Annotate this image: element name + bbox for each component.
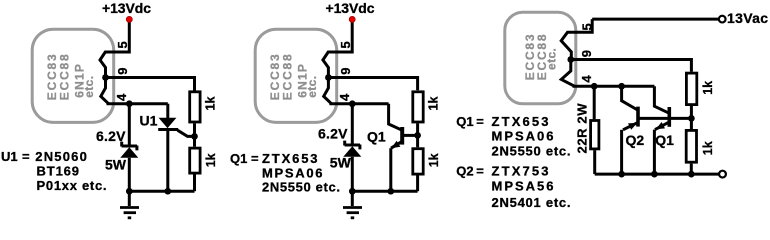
svg-text:9: 9 (579, 50, 594, 57)
svg-text:6.2V: 6.2V (96, 128, 126, 144)
svg-text:13Vac: 13Vac (727, 10, 768, 26)
svg-text:Q2: Q2 (626, 132, 645, 148)
svg-text:9: 9 (338, 68, 353, 75)
svg-text:2N5550 etc.: 2N5550 etc. (262, 179, 340, 194)
svg-text:2N5060: 2N5060 (35, 149, 87, 164)
svg-text:Q1: Q1 (655, 132, 674, 148)
svg-text:Q1: Q1 (456, 114, 473, 129)
svg-text:1k: 1k (427, 97, 441, 111)
svg-text:U1: U1 (140, 113, 158, 129)
svg-text:U1: U1 (1, 149, 18, 164)
svg-text:Q1: Q1 (367, 129, 386, 145)
svg-text:ECC88: ECC88 (57, 53, 71, 101)
svg-text:4: 4 (579, 75, 594, 83)
svg-text:ECC88: ECC88 (280, 53, 294, 101)
svg-text:1k: 1k (701, 141, 715, 155)
svg-text:+13Vdc: +13Vdc (102, 0, 151, 16)
svg-text:=: = (251, 151, 259, 166)
svg-text:=: = (476, 163, 484, 178)
svg-text:+13Vdc: +13Vdc (326, 0, 375, 16)
svg-text:9: 9 (115, 68, 130, 75)
svg-text:MPSA56: MPSA56 (492, 178, 554, 193)
svg-text:2N5550 etc.: 2N5550 etc. (492, 144, 571, 159)
svg-text:Q2: Q2 (456, 163, 473, 178)
svg-text:1k: 1k (204, 153, 218, 167)
svg-text:etc.: etc. (82, 76, 96, 98)
svg-text:P01xx etc.: P01xx etc. (37, 178, 107, 193)
svg-text:5: 5 (338, 41, 353, 48)
svg-text:22R 2W: 22R 2W (574, 103, 589, 154)
svg-text:BT169: BT169 (37, 164, 80, 179)
svg-text:4: 4 (337, 93, 352, 101)
svg-text:=: = (22, 149, 30, 164)
svg-text:MPSA06: MPSA06 (492, 129, 554, 144)
svg-text:6.2V: 6.2V (318, 126, 348, 142)
svg-text:=: = (476, 114, 484, 129)
svg-text:5W: 5W (330, 154, 352, 170)
svg-text:5: 5 (115, 41, 130, 48)
svg-text:MPSA06: MPSA06 (262, 166, 323, 181)
svg-text:etc.: etc. (305, 76, 319, 98)
svg-text:5: 5 (579, 23, 594, 30)
svg-text:1k: 1k (701, 81, 715, 95)
svg-text:1k: 1k (427, 153, 441, 167)
svg-text:2N5401 etc.: 2N5401 etc. (492, 195, 571, 210)
svg-text:5W: 5W (105, 157, 127, 173)
svg-text:Q1: Q1 (230, 151, 247, 166)
svg-text:etc.: etc. (545, 48, 559, 70)
svg-text:4: 4 (114, 93, 129, 101)
svg-text:1k: 1k (204, 97, 218, 111)
